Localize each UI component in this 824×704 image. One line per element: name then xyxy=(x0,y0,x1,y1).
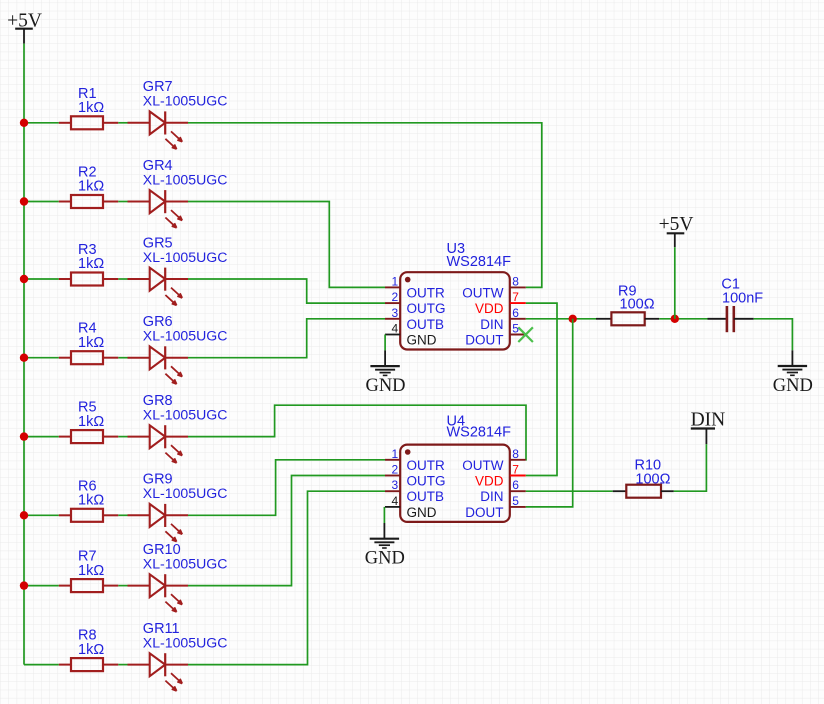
svg-text:7: 7 xyxy=(512,290,519,304)
wire R6 to GR9 xyxy=(118,514,127,516)
svg-text:XL-1005UGC: XL-1005UGC xyxy=(143,485,228,501)
wire GR8 to U4 pin8 OUTW xyxy=(188,405,526,460)
wire R2 to GR4 xyxy=(118,201,127,203)
wire U3 pin6 DIN to R9 xyxy=(526,318,596,320)
svg-text:GND: GND xyxy=(365,549,405,569)
svg-text:DIN: DIN xyxy=(480,317,503,332)
wire rail to R5 xyxy=(24,436,59,438)
U4 pin1 polarity dot xyxy=(405,449,411,455)
wire GR10 to U4 pin2 OUTG xyxy=(188,476,385,586)
junction node +5V/C1 xyxy=(671,315,679,323)
svg-text:OUTW: OUTW xyxy=(462,285,503,300)
svg-text:OUTG: OUTG xyxy=(407,301,446,316)
wire rail to R1 xyxy=(24,122,59,124)
wire R7 to GR10 xyxy=(118,585,127,587)
svg-text:GND: GND xyxy=(365,376,405,396)
junction node rail row 6 xyxy=(20,511,28,519)
svg-text:XL-1005UGC: XL-1005UGC xyxy=(143,328,228,344)
wire rail to R8 xyxy=(24,664,59,666)
power flag +5V (left rail) xyxy=(7,10,42,43)
resistor R4 xyxy=(59,351,119,364)
resistor R6 xyxy=(59,509,119,522)
wire R3 to GR5 xyxy=(118,278,127,280)
wire rail to R6 xyxy=(24,514,59,516)
svg-text:6: 6 xyxy=(512,478,519,492)
wire U3 pin7 VDD to U4 pin7 VDD xyxy=(526,303,557,475)
resistor R9 xyxy=(596,312,659,325)
wire C1 to ground xyxy=(754,319,793,351)
U4 pin 1 stub xyxy=(385,459,400,461)
wire GR11 to U4 pin3 OUTB xyxy=(188,491,385,664)
U4 pin 6 stub xyxy=(510,490,526,492)
LED GR8 xyxy=(128,425,189,463)
U3 pin 2 stub xyxy=(385,302,400,304)
wire R4 to GR6 xyxy=(118,357,127,359)
wire +5V down to node xyxy=(674,247,676,319)
power flag +5V (right) xyxy=(659,214,694,247)
svg-text:+5V: +5V xyxy=(659,214,694,235)
svg-text:OUTB: OUTB xyxy=(407,317,445,332)
wire GR4 to U3 pin1 OUTR xyxy=(188,202,385,288)
svg-text:XL-1005UGC: XL-1005UGC xyxy=(143,171,228,187)
svg-text:GND: GND xyxy=(407,505,437,520)
svg-text:100Ω: 100Ω xyxy=(635,472,670,488)
ground symbol GND (U3) xyxy=(370,350,399,375)
svg-text:1: 1 xyxy=(392,447,399,461)
svg-text:WS2814F: WS2814F xyxy=(447,254,512,270)
wire GR5 to U3 pin2 OUTG xyxy=(188,279,385,303)
svg-text:VDD: VDD xyxy=(475,474,504,489)
svg-text:1kΩ: 1kΩ xyxy=(78,414,104,430)
svg-text:2: 2 xyxy=(392,290,399,304)
svg-text:2: 2 xyxy=(392,463,399,477)
svg-text:1kΩ: 1kΩ xyxy=(78,100,104,116)
resistor R8 xyxy=(59,658,119,671)
U3 pin 6 stub xyxy=(510,318,526,320)
U3 pin 4 stub xyxy=(385,334,400,336)
svg-text:OUTW: OUTW xyxy=(462,458,503,473)
svg-text:1kΩ: 1kΩ xyxy=(78,642,104,658)
svg-text:DOUT: DOUT xyxy=(465,505,503,520)
wire R1 to GR7 xyxy=(118,122,127,124)
svg-text:8: 8 xyxy=(512,274,519,288)
resistor R5 xyxy=(59,430,119,443)
LED GR6 xyxy=(128,346,189,384)
U4 pin 7 stub xyxy=(510,475,526,477)
resistor R1 xyxy=(59,116,119,129)
svg-text:1: 1 xyxy=(392,274,399,288)
U3 pin 1 stub xyxy=(385,286,400,288)
resistor R2 xyxy=(59,195,119,208)
ground symbol GND (U4) xyxy=(370,523,399,548)
junction node rail row 7 xyxy=(20,581,28,589)
svg-text:VDD: VDD xyxy=(475,301,504,316)
U3 pin 3 stub xyxy=(385,318,400,320)
svg-text:XL-1005UGC: XL-1005UGC xyxy=(143,555,228,571)
svg-text:OUTR: OUTR xyxy=(407,458,445,473)
svg-text:OUTG: OUTG xyxy=(407,474,446,489)
junction node rail row 2 xyxy=(20,197,28,205)
LED GR11 xyxy=(128,653,189,691)
svg-text:100Ω: 100Ω xyxy=(620,297,655,313)
LED GR9 xyxy=(128,504,189,542)
wire GR7 to U3 pin8 OUTW xyxy=(188,123,542,288)
svg-text:GND: GND xyxy=(407,333,437,348)
ground symbol GND (C1) xyxy=(778,350,807,375)
wire R10 to DIN port xyxy=(674,444,707,491)
svg-text:5: 5 xyxy=(512,494,519,508)
svg-text:1kΩ: 1kΩ xyxy=(78,335,104,351)
U3 pin 8 stub xyxy=(510,286,526,288)
svg-text:DOUT: DOUT xyxy=(465,333,503,348)
U4 pin 8 stub xyxy=(510,459,526,461)
svg-text:1kΩ: 1kΩ xyxy=(78,563,104,579)
svg-text:XL-1005UGC: XL-1005UGC xyxy=(143,634,228,650)
svg-text:3: 3 xyxy=(392,306,399,320)
svg-text:3: 3 xyxy=(392,478,399,492)
LED GR7 xyxy=(128,111,189,149)
U4 pin 2 stub xyxy=(385,475,400,477)
junction node rail row 4 xyxy=(20,354,28,362)
U4 pin 5 stub xyxy=(510,506,526,508)
resistor R10 xyxy=(613,485,674,498)
resistor R3 xyxy=(59,273,119,286)
wire GR9 to U4 pin1 OUTR xyxy=(188,460,385,516)
wire U3 pin4 to ground xyxy=(384,335,386,351)
junction node rail row 1 xyxy=(20,119,28,127)
svg-text:100nF: 100nF xyxy=(722,291,763,307)
LED GR5 xyxy=(128,268,189,306)
svg-text:7: 7 xyxy=(512,463,519,477)
no-connect X on U3 pin5 DOUT xyxy=(518,327,533,342)
wire +5V left rail vertical xyxy=(23,44,25,665)
wire rail to R3 xyxy=(24,278,59,280)
svg-text:OUTR: OUTR xyxy=(407,285,445,300)
wire U4 pin4 to ground xyxy=(383,507,385,523)
wire rail to R2 xyxy=(24,201,59,203)
resistor R7 xyxy=(59,579,119,592)
capacitor C1 xyxy=(708,306,754,332)
junction node rail row 5 xyxy=(20,432,28,440)
svg-text:WS2814F: WS2814F xyxy=(447,424,512,440)
wire junction down to U4 pin5 DOUT xyxy=(526,319,573,507)
IC U4 WS2814F body xyxy=(400,445,510,522)
port DIN xyxy=(691,410,726,445)
junction node rail row 3 xyxy=(20,275,28,283)
wire R9 to +5V node xyxy=(659,318,707,320)
junction node DIN net xyxy=(569,315,577,323)
IC U3 WS2814F body xyxy=(400,272,510,349)
U3 pin1 polarity dot xyxy=(405,277,411,283)
wire R5 to GR8 xyxy=(118,436,127,438)
wire rail to R7 xyxy=(24,585,59,587)
svg-text:4: 4 xyxy=(392,494,399,508)
wire GR6 to U3 pin3 OUTB xyxy=(188,319,385,358)
svg-text:4: 4 xyxy=(392,322,399,336)
svg-text:6: 6 xyxy=(512,306,519,320)
svg-text:1kΩ: 1kΩ xyxy=(78,256,104,272)
LED GR4 xyxy=(128,190,189,228)
svg-text:DIN: DIN xyxy=(480,489,503,504)
svg-text:XL-1005UGC: XL-1005UGC xyxy=(143,406,228,422)
svg-text:1kΩ: 1kΩ xyxy=(78,179,104,195)
wire U4 pin6 DIN to R10 xyxy=(526,490,613,492)
LED GR10 xyxy=(128,574,189,612)
svg-text:XL-1005UGC: XL-1005UGC xyxy=(143,93,228,109)
svg-text:OUTB: OUTB xyxy=(407,489,445,504)
wire R8 to GR11 xyxy=(118,664,127,666)
svg-text:GND: GND xyxy=(773,376,813,396)
svg-text:8: 8 xyxy=(512,447,519,461)
U3 pin 5 stub xyxy=(510,334,526,336)
svg-text:1kΩ: 1kΩ xyxy=(78,493,104,509)
U4 pin 4 stub xyxy=(385,506,400,508)
U3 pin 7 stub xyxy=(510,302,526,304)
node rail bottom corner xyxy=(0,0,1,1)
U4 pin 3 stub xyxy=(385,490,400,492)
svg-text:XL-1005UGC: XL-1005UGC xyxy=(143,249,228,265)
wire rail to R4 xyxy=(24,357,59,359)
svg-text:DIN: DIN xyxy=(691,410,726,431)
